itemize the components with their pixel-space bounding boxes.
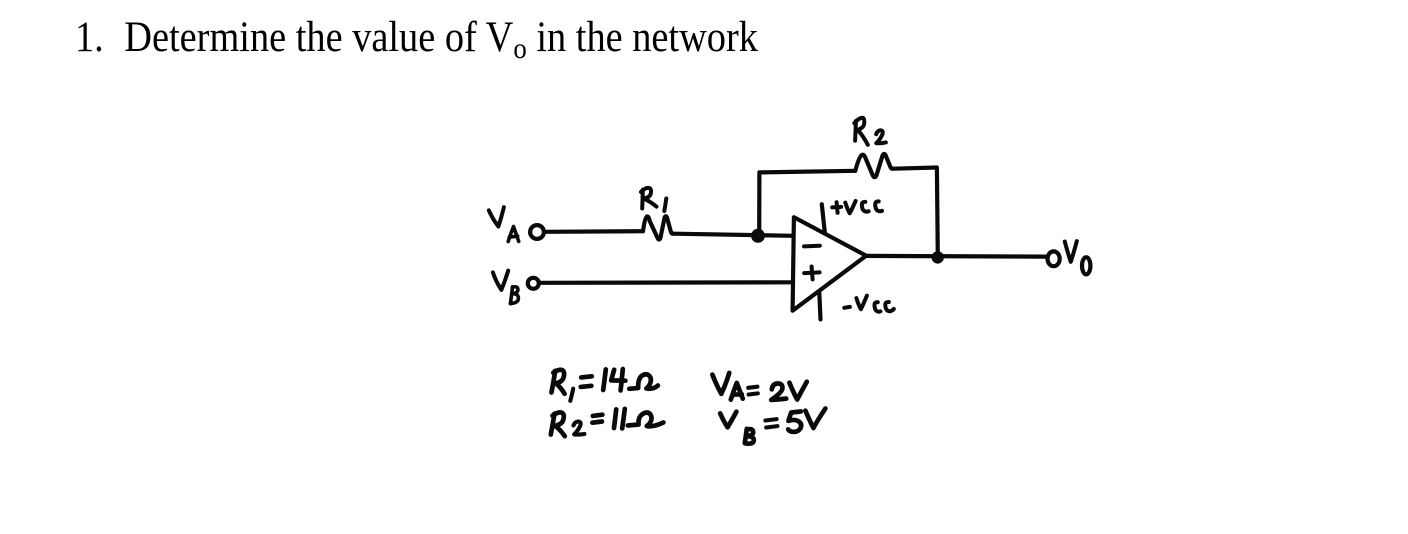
wire feedback left riser and top-left run: [759, 171, 855, 236]
wire R1 to op-amp inverting input through node A: [674, 234, 794, 236]
+Vcc pin stub: [822, 204, 825, 232]
node B (output junction): [932, 251, 944, 263]
wire VB to op-amp non-inverting input: [541, 280, 794, 285]
label Vo: [1065, 241, 1091, 274]
terminal VB: [528, 278, 539, 289]
wire R2 to output corner and right riser down: [893, 168, 937, 258]
label +Vcc: [832, 201, 882, 213]
label -Vcc: [844, 296, 894, 312]
op-amp U1: [793, 217, 867, 311]
label VB: [493, 271, 519, 304]
label R1: [641, 188, 666, 211]
label R2: [854, 118, 886, 145]
problem statement title: [75, 13, 758, 66]
label VA: [489, 207, 519, 241]
resistor R1: [643, 216, 674, 239]
terminal Vo: [1048, 251, 1060, 266]
wire op-amp output to terminal Vo: [866, 254, 1045, 259]
resistor R2: [855, 154, 893, 177]
op-amp inverting input minus sign: [804, 244, 820, 249]
-Vcc pin stub: [819, 293, 820, 320]
terminal VA: [530, 225, 544, 239]
value label R1 = 14 ohm: [552, 369, 658, 401]
value label VB = 5V: [720, 409, 825, 444]
value label R2 = 11 ohm: [551, 409, 664, 436]
op-amp non-inverting input plus sign: [804, 267, 819, 280]
value label VA = 2V: [712, 373, 806, 400]
wire VA to R1: [546, 229, 644, 234]
node A (inverting input junction): [751, 229, 765, 243]
